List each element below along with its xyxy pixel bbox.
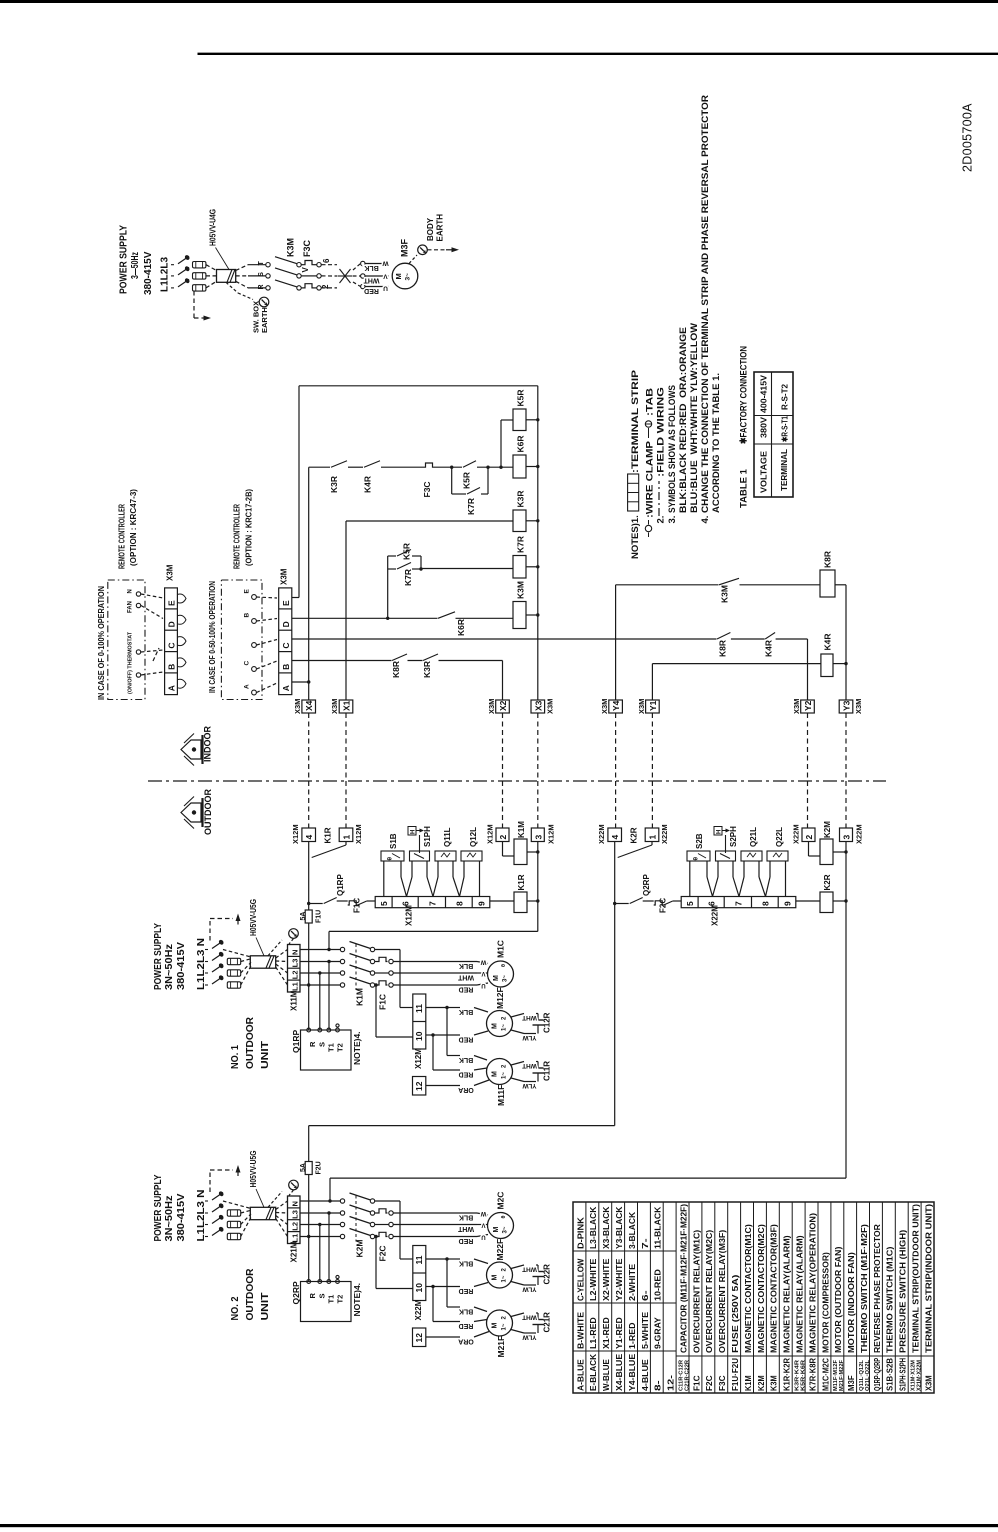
svg-text:Y4: Y4 — [611, 700, 621, 711]
svg-text:BLU:BLUE WHT:WHITE YLW:YELLOW: BLU:BLUE WHT:WHITE YLW:YELLOW — [689, 323, 700, 513]
svg-text:R: R — [308, 1293, 317, 1299]
table legend outer border — [573, 1202, 934, 1393]
fuse supply F-L2 — [193, 273, 206, 279]
svg-text:MAGNETIC RELAY(ALARM): MAGNETIC RELAY(ALARM) — [794, 1235, 804, 1353]
terminal 4 of X12M — [302, 828, 316, 842]
svg-text:T1: T1 — [327, 1295, 336, 1304]
svg-text:3~: 3~ — [503, 1226, 509, 1233]
svg-text:X22M: X22M — [792, 824, 801, 844]
svg-text:WHT: WHT — [522, 1062, 537, 1069]
motor M21F outdoor fan — [487, 1310, 513, 1336]
svg-text:(OPTION : KRC17-2B): (OPTION : KRC17-2B) — [244, 489, 254, 566]
svg-text:H05VV-U5G: H05VV-U5G — [248, 1150, 258, 1187]
svg-text:RED: RED — [459, 1237, 474, 1244]
svg-text:BLK: BLK — [364, 264, 378, 271]
svg-text:L1L2L3 N: L1L2L3 N — [196, 1190, 207, 1242]
terminal 1 of X22M — [645, 828, 659, 842]
wire N line unit2 — [300, 1200, 341, 1202]
wire L1 tap to cell 10 unit1 — [374, 983, 377, 986]
svg-text:BLK: BLK — [459, 962, 473, 969]
svg-text:K2M: K2M — [355, 1240, 365, 1258]
wire X22M-4 down — [614, 842, 616, 904]
wire field drop Y3 — [845, 713, 847, 828]
wire X12M-4 feed with fuse F1U — [308, 904, 310, 911]
terminal 3 of X22M — [840, 828, 853, 842]
table legend row divider — [624, 1202, 626, 1393]
wire to K7R coil — [421, 568, 513, 570]
svg-text:BLK: BLK — [459, 1056, 473, 1063]
svg-text:MOTOR (INDOOR FAN): MOTOR (INDOOR FAN) — [846, 1252, 856, 1353]
svg-text:M: M — [492, 1071, 499, 1077]
svg-text:X3M: X3M — [792, 699, 801, 714]
fuse input fuses unit2 — [227, 1210, 240, 1216]
wire C line long — [292, 638, 808, 640]
table legend row divider — [894, 1202, 896, 1393]
svg-text:MAGNETIC CONTACTOR(M3F): MAGNETIC CONTACTOR(M3F) — [769, 1224, 779, 1353]
svg-text:L2: L2 — [291, 1222, 300, 1231]
svg-text:TERMINAL STRIP(OUTDOOR UNIT): TERMINAL STRIP(OUTDOOR UNIT) — [911, 1204, 921, 1353]
svg-text:10: 10 — [414, 1283, 424, 1293]
contact K8R on C line — [717, 638, 731, 641]
svg-text:H05VV-U5G: H05VV-U5G — [248, 899, 258, 936]
svg-text:E: E — [244, 589, 251, 594]
contactor coil K2M — [820, 839, 833, 865]
table legend row divider — [714, 1202, 716, 1393]
svg-text:K4R: K4R — [823, 633, 833, 650]
svg-text:1~: 1~ — [502, 1024, 508, 1031]
wire plug arcs — [177, 594, 186, 603]
wire N to cell 11 unit1 — [399, 950, 401, 1008]
terminal 4 of X22M — [608, 828, 622, 842]
terminal Y2 of X3M — [801, 700, 815, 713]
overcurrent contact F3C — [424, 463, 434, 467]
svg-text:B-WHITE: B-WHITE — [575, 1311, 585, 1349]
thermo switch S1B — [381, 851, 404, 861]
wire top bus — [299, 385, 538, 387]
wire RP feeds unit1 — [319, 973, 321, 1030]
svg-text:X4: X4 — [304, 700, 314, 711]
svg-text:TERMINAL: TERMINAL — [779, 449, 789, 491]
terminal strip X22M 11 10 — [413, 1246, 426, 1301]
wire Y4 riser — [615, 585, 617, 700]
svg-text:U: U — [481, 982, 485, 988]
svg-text:RED: RED — [459, 1287, 474, 1294]
wire L2 line unit1 — [300, 972, 341, 974]
svg-text:M: M — [492, 1023, 499, 1029]
svg-text:M11F: M11F — [496, 1085, 506, 1106]
svg-text:F3C: F3C — [422, 481, 432, 497]
overcurrent relay F3C heater elements — [301, 264, 303, 266]
svg-text:H05VV-U4G: H05VV-U4G — [208, 209, 218, 246]
svg-text:BODY: BODY — [426, 217, 435, 241]
svg-text:Y2-WHITE: Y2-WHITE — [614, 1258, 624, 1301]
svg-text:θ: θ — [501, 964, 507, 967]
svg-text:F2U: F2U — [316, 1161, 323, 1174]
table legend row divider — [804, 1202, 806, 1393]
wire Y1 riser — [651, 664, 653, 700]
table legend row divider — [881, 1202, 883, 1393]
svg-text:X3M: X3M — [854, 699, 863, 714]
ground body earth symbol — [418, 245, 428, 255]
contact K4R — [364, 466, 381, 469]
svg-text:K2M: K2M — [756, 1375, 766, 1391]
svg-text:Q2RP: Q2RP — [642, 874, 651, 896]
table legend color column dividers — [573, 1250, 676, 1252]
svg-text:5A: 5A — [300, 912, 307, 921]
terminal strip X3M controller2 — [279, 588, 292, 695]
svg-text:WHT: WHT — [522, 1313, 537, 1320]
svg-text:R: R — [258, 284, 265, 289]
terminal strip X11M — [288, 945, 301, 993]
contact K3M aux — [719, 583, 740, 586]
svg-text:X3-BLACK: X3-BLACK — [601, 1207, 611, 1249]
svg-text:FAN: FAN — [128, 601, 134, 613]
svg-text:6: 6 — [322, 258, 331, 263]
svg-text:K8R: K8R — [718, 640, 728, 657]
svg-text:POWER SUPPLY: POWER SUPPLY — [119, 225, 130, 294]
terminal Y1 of X3M — [646, 700, 660, 713]
svg-text:K6R: K6R — [516, 435, 526, 452]
svg-text:θ: θ — [387, 857, 394, 861]
contact K5R — [463, 466, 477, 469]
svg-text:OUTDOOR: OUTDOOR — [244, 1017, 256, 1069]
svg-text:C-YELLOW: C-YELLOW — [575, 1258, 585, 1301]
svg-text:K6R: K6R — [456, 619, 466, 636]
relay coil K4R — [821, 654, 833, 677]
wire — [206, 281, 217, 288]
svg-text:X2-WHITE: X2-WHITE — [601, 1258, 611, 1301]
svg-text:A-BLUE: A-BLUE — [575, 1359, 585, 1391]
svg-text:X12M: X12M — [354, 824, 363, 844]
svg-text:2.: 2. — [656, 516, 667, 524]
svg-text:K5R: K5R — [462, 472, 472, 489]
svg-text:UNIT: UNIT — [259, 1040, 271, 1069]
svg-text:11: 11 — [414, 1255, 424, 1264]
svg-text:M22F: M22F — [495, 1239, 505, 1261]
svg-text:M: M — [493, 1227, 500, 1233]
svg-text:Y3: Y3 — [842, 700, 852, 711]
svg-text:D: D — [281, 621, 291, 627]
svg-text:K1R·K2R: K1R·K2R — [782, 1358, 792, 1391]
svg-text:F1C: F1C — [353, 898, 362, 913]
wire field drop X2 — [502, 713, 504, 828]
svg-text:FUSE (250V 5A): FUSE (250V 5A) — [730, 1274, 740, 1353]
table legend row divider — [637, 1202, 639, 1393]
svg-text:YLW: YLW — [522, 1285, 537, 1292]
svg-text:D-PINK: D-PINK — [575, 1217, 585, 1249]
svg-text:K1M: K1M — [743, 1375, 753, 1391]
svg-text:F1C: F1C — [378, 994, 388, 1010]
capacitor wires M12F — [426, 1007, 447, 1009]
svg-text:K7R: K7R — [403, 569, 413, 586]
svg-text:EARTH: EARTH — [260, 307, 269, 333]
wire A line — [292, 681, 310, 683]
svg-text:K7R·K8R: K7R·K8R — [807, 1358, 817, 1391]
svg-text:5-WHITE: 5-WHITE — [640, 1311, 650, 1349]
svg-text:M3F: M3F — [400, 238, 410, 257]
svg-text:K5R·K6R: K5R·K6R — [800, 1359, 806, 1391]
svg-text:X3M: X3M — [487, 699, 496, 714]
svg-text:V: V — [301, 267, 310, 273]
svg-text:T2: T2 — [336, 1295, 345, 1304]
table legend row divider — [598, 1202, 600, 1393]
svg-text:R: R — [308, 1041, 317, 1047]
svg-text:YLW: YLW — [522, 1333, 537, 1340]
wire label leader — [216, 248, 230, 270]
svg-text:ORA: ORA — [458, 1086, 474, 1093]
svg-text:9: 9 — [783, 901, 793, 906]
svg-text:Y1-RED: Y1-RED — [614, 1317, 624, 1349]
svg-text:K1M: K1M — [517, 821, 526, 838]
wire — [236, 281, 248, 288]
svg-text:4: 4 — [304, 835, 314, 840]
svg-text:3N~50Hz: 3N~50Hz — [164, 1196, 175, 1242]
contact K2R alarm — [651, 842, 653, 846]
terminal 1 of X12M — [339, 828, 353, 842]
svg-text:K2R: K2R — [823, 874, 832, 890]
svg-text:N: N — [291, 1201, 300, 1206]
motor M2C compressor — [477, 1213, 488, 1215]
capacitor C22R — [511, 1265, 524, 1269]
table legend row divider — [869, 1202, 871, 1393]
table legend row divider — [791, 1202, 793, 1393]
svg-text:380-415V: 380-415V — [176, 1193, 187, 1241]
svg-text:CHANGE THE CONNECTION OF TERMI: CHANGE THE CONNECTION OF TERMINAL STRIP … — [700, 95, 711, 513]
svg-text:X11M: X11M — [290, 990, 299, 1011]
svg-text:7: 7 — [733, 901, 743, 906]
svg-text:NO. 1: NO. 1 — [229, 1045, 241, 1069]
terminal X2 of X3M — [496, 700, 510, 713]
svg-text:BLK: BLK — [459, 1307, 473, 1314]
svg-text:X12M: X12M — [291, 824, 300, 844]
transformer cable H05VV-U5G unit2 — [250, 1207, 275, 1219]
contact Q2RP and F2C on control feed — [615, 903, 629, 905]
table legend row divider — [585, 1202, 587, 1393]
contact K5R K7R parallel pair — [387, 556, 389, 618]
wire L1 tap to cell 10 unit2 — [374, 1235, 377, 1238]
svg-text:OVERCURRENT RELAY(M1C): OVERCURRENT RELAY(M1C) — [691, 1230, 701, 1353]
svg-text:C21R·C22R: C21R·C22R — [684, 1359, 690, 1391]
svg-text:CAPACITOR (M11F·M12F·M21F·M22F: CAPACITOR (M11F·M12F·M21F·M22F) — [678, 1204, 688, 1353]
contact K1R alarm — [345, 842, 347, 846]
svg-text:Q1RP·Q2RP: Q1RP·Q2RP — [872, 1358, 882, 1391]
svg-text:Q21L·Q22L: Q21L·Q22L — [865, 1360, 871, 1391]
contactor K2M poles — [340, 1199, 344, 1203]
svg-text:OVERCURRENT RELAY(M3F): OVERCURRENT RELAY(M3F) — [717, 1230, 727, 1353]
svg-text:F1C: F1C — [691, 1375, 701, 1391]
svg-text:X1: X1 — [342, 700, 352, 711]
svg-text:K4R: K4R — [764, 640, 774, 657]
svg-text:3N~50Hz: 3N~50Hz — [164, 944, 175, 990]
terminal strip X12M 5-9 — [375, 897, 490, 908]
svg-text:T2: T2 — [336, 1043, 345, 1052]
svg-text:REVERSE PHASE PROTECTOR: REVERSE PHASE PROTECTOR — [872, 1224, 882, 1353]
svg-text:MAGNETIC CONTACTOR(M2C): MAGNETIC CONTACTOR(M2C) — [756, 1224, 766, 1353]
svg-text:X12M: X12M — [486, 824, 495, 844]
wire dashed arrow unit2 — [209, 1170, 211, 1192]
terminal 12 of X22M — [413, 1328, 426, 1347]
svg-text:X12M: X12M — [414, 1048, 423, 1069]
terminal Y4 of X3M — [609, 700, 623, 713]
svg-text:12: 12 — [414, 1081, 424, 1091]
wire X1 riser — [345, 521, 347, 700]
svg-text:10-RED: 10-RED — [653, 1269, 663, 1301]
svg-text:X3M: X3M — [166, 564, 175, 581]
thermo switch S2B — [687, 851, 710, 861]
svg-text:K3M: K3M — [720, 585, 730, 603]
wire dashed continuation arrow — [193, 291, 195, 318]
svg-text:X12M: X12M — [405, 905, 414, 926]
svg-text:5: 5 — [379, 901, 389, 906]
svg-text:Q12L: Q12L — [469, 827, 478, 847]
svg-text:ACCORDING TO THE TABLE 1.: ACCORDING TO THE TABLE 1. — [711, 373, 722, 513]
wire switch legs — [383, 861, 385, 897]
wire field drop Y4 — [615, 713, 617, 828]
svg-text:UNIT: UNIT — [259, 1292, 271, 1321]
svg-text:B: B — [281, 664, 291, 670]
svg-text:E: E — [167, 600, 177, 606]
svg-text:THERMO SWITCH (M1C): THERMO SWITCH (M1C) — [885, 1246, 895, 1353]
svg-text:RED: RED — [459, 1322, 474, 1329]
ground earth unit1 — [268, 940, 282, 956]
svg-text:NOTES)1.: NOTES)1. — [630, 515, 641, 559]
wire field drop X4 — [308, 713, 310, 828]
svg-text:V: V — [383, 272, 388, 279]
contact K8R on B line — [392, 659, 408, 662]
svg-text:K2M: K2M — [823, 821, 832, 838]
svg-text:Q22L: Q22L — [775, 827, 784, 847]
svg-text:X3M: X3M — [923, 1375, 933, 1391]
wire indoor outdoor boundary — [148, 780, 886, 782]
wire N line unit1 — [300, 949, 341, 951]
transformer cable H05VV-U5G unit1 — [250, 956, 275, 968]
svg-text:POWER SUPPLY: POWER SUPPLY — [153, 923, 164, 990]
wire B line — [292, 660, 503, 662]
wire C line drop to Y2 — [807, 639, 809, 700]
svg-text:8: 8 — [454, 901, 464, 906]
svg-text:1: 1 — [648, 835, 658, 840]
svg-text:3.: 3. — [667, 516, 678, 524]
switch supply disconnect L2 — [171, 275, 175, 277]
node OUTDOOR house icon — [181, 803, 201, 822]
svg-text:D: D — [167, 621, 177, 627]
wire X22M-4 feed long with fuse F2U — [614, 904, 616, 1126]
svg-text:L1: L1 — [291, 1234, 300, 1243]
svg-text:K5R: K5R — [516, 389, 526, 406]
terminal strip X21M — [288, 1196, 301, 1244]
table legend row divider — [830, 1202, 832, 1393]
svg-text:X22M: X22M — [597, 824, 606, 844]
wire top page border bar — [0, 0, 998, 3]
capacitor C12R — [511, 1014, 524, 1018]
svg-text:K3R: K3R — [422, 661, 432, 678]
capacitor C21R — [511, 1313, 524, 1317]
svg-text:K3M: K3M — [516, 581, 526, 599]
svg-text:K3M: K3M — [769, 1375, 779, 1391]
svg-text:NOTE)4.: NOTE)4. — [352, 1031, 362, 1065]
svg-text:L3-BLACK: L3-BLACK — [588, 1207, 598, 1249]
terminal strip X12M 11 10 — [413, 994, 426, 1049]
svg-text:OUTDOOR: OUTDOOR — [203, 789, 213, 835]
svg-text:BLK: BLK — [459, 1008, 473, 1015]
svg-text:Q11L: Q11L — [443, 827, 452, 847]
svg-text:N: N — [128, 589, 134, 593]
motor M12F outdoor fan — [487, 1011, 513, 1037]
remote controller 2 dashed box — [221, 580, 262, 700]
wire L3 line unit2 — [300, 1212, 341, 1214]
svg-text:L3: L3 — [291, 959, 300, 968]
relay coil K7R — [513, 556, 526, 579]
svg-text:F1U: F1U — [316, 910, 323, 923]
wire X12M-3 neutral bus down — [537, 842, 539, 932]
svg-text:WHT: WHT — [363, 276, 380, 283]
svg-text:THERMO SWITCH (M1F·M2F): THERMO SWITCH (M1F·M2F) — [859, 1224, 869, 1353]
svg-text:S2B: S2B — [695, 833, 704, 849]
table legend row divider — [727, 1202, 729, 1393]
wire right bus — [537, 386, 539, 700]
terminal 12 of X12M — [413, 1077, 426, 1096]
svg-text:RED: RED — [459, 1070, 474, 1077]
wire — [206, 265, 217, 271]
svg-text:E: E — [281, 600, 291, 606]
svg-text:NO. 2: NO. 2 — [229, 1296, 241, 1320]
relay coil K6R — [513, 455, 526, 478]
svg-text:S: S — [318, 1042, 327, 1047]
wire dashed to clamp — [322, 264, 338, 266]
svg-text:X1-RED: X1-RED — [601, 1317, 611, 1349]
svg-text:4-BLUE: 4-BLUE — [640, 1359, 650, 1391]
svg-text:C: C — [281, 642, 291, 648]
svg-text:MAGNETIC RELAY(ALARM): MAGNETIC RELAY(ALARM) — [782, 1235, 792, 1353]
svg-text:REMOTE CONTROLLER: REMOTE CONTROLLER — [117, 504, 127, 569]
svg-text:S1B: S1B — [389, 833, 398, 849]
svg-text:TABLE 1: TABLE 1 — [739, 468, 750, 508]
svg-text:F3C: F3C — [717, 1375, 727, 1391]
svg-text:W: W — [480, 1210, 486, 1216]
svg-text:YLW: YLW — [522, 1034, 537, 1041]
svg-text:W: W — [382, 259, 389, 266]
svg-text:A: A — [244, 684, 251, 689]
contact Q1RP and F1C on control feed — [309, 903, 323, 905]
wire field drop X1 — [345, 713, 347, 828]
wire left bus to E — [298, 386, 300, 598]
svg-text:F2C: F2C — [378, 1245, 388, 1261]
svg-text:380-415V: 380-415V — [143, 251, 154, 295]
thermo switch Q11L — [435, 851, 456, 861]
svg-text:5: 5 — [685, 901, 695, 906]
svg-text:X3M: X3M — [637, 699, 646, 714]
relay coil K5R — [513, 409, 526, 431]
svg-text:IN CASE OF 0-50-100% OPERATION: IN CASE OF 0-50-100% OPERATION — [207, 581, 217, 693]
wire right control bus — [845, 585, 847, 700]
terminal strip symbol — [628, 474, 639, 511]
svg-text:7: 7 — [427, 901, 437, 906]
svg-text:L1L2L3: L1L2L3 — [160, 257, 171, 292]
svg-text:E-BLACK: E-BLACK — [588, 1354, 598, 1391]
svg-text:X3M: X3M — [600, 699, 609, 714]
table legend row divider — [611, 1202, 613, 1393]
wire title block rule — [198, 53, 998, 55]
terminal X1 of X3M — [339, 700, 353, 713]
svg-text:7-: 7- — [640, 1238, 650, 1249]
wire K4R coil line — [652, 663, 821, 665]
table legend row divider — [920, 1202, 922, 1393]
svg-text:4.: 4. — [700, 516, 711, 524]
switch supply stubs unit1 — [205, 949, 209, 951]
wire L1 line unit1 — [300, 984, 341, 986]
svg-text:L1: L1 — [291, 982, 300, 991]
svg-text:F2C: F2C — [704, 1375, 714, 1391]
